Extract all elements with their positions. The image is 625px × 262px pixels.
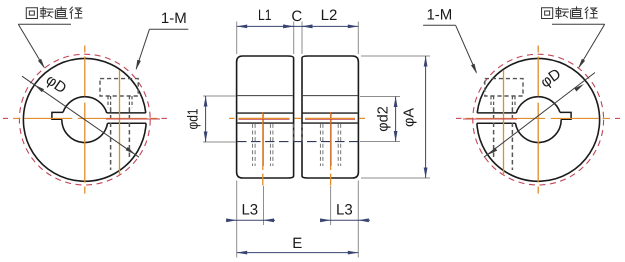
screw axis centerline (503, 70, 505, 175)
extension lines for L1/C/L2 (236, 22, 238, 55)
svg-text:L3: L3 (241, 202, 258, 219)
phi-D dimension line (22, 76, 139, 157)
leader to red circle left (18, 24, 44, 67)
dimension line phi-d1 (205, 96, 207, 142)
svg-text:φd2: φd2 (376, 106, 392, 132)
svg-text:φd1: φd1 (186, 109, 202, 130)
hidden slit gap lines below center (293, 124, 295, 142)
svg-text:C: C (291, 8, 302, 25)
phi-D dimension line (484, 73, 595, 158)
leader to screw hole left (136, 29, 149, 69)
slit upper silhouette line (237, 112, 293, 114)
outer diameter circle (477, 58, 600, 181)
outer diameter circle (23, 58, 146, 181)
hidden bore bottom line (237, 141, 358, 143)
bore top line left half (237, 95, 292, 97)
clamp slit lines (107, 112, 146, 114)
bore relief notch (560, 112, 571, 119)
dimension line L1 (237, 25, 294, 27)
hidden screw thread lines (514, 96, 516, 108)
svg-text:φA: φA (402, 108, 418, 127)
label "kaiten chokkei" (rotation diameter) right (542, 8, 553, 19)
bore top line right half (303, 95, 358, 97)
red overlay segment on centerline (463, 118, 517, 120)
hidden clamp screw hole lines left (252, 124, 254, 166)
rotation-diameter red dashed circle (19, 54, 150, 185)
horizontal centerline (615, 117, 620, 119)
leader to red circle right (579, 24, 605, 67)
clamp slit lines (477, 112, 516, 114)
hidden screw thread lines (107, 96, 109, 108)
bore circle (516, 97, 560, 113)
svg-text:1-M: 1-M (161, 10, 187, 27)
label "kaiten chokkei" (rotation diameter) left (26, 8, 37, 19)
extension lines bottom (236, 181, 238, 258)
vertical centerline (84, 46, 86, 194)
svg-text:L1: L1 (258, 7, 272, 24)
dimension E (237, 252, 359, 254)
slit lower silhouette line (237, 122, 293, 124)
dimension line C (284, 25, 312, 27)
red overlay on front view centerline (239, 118, 356, 120)
extension lines for phi-d1 (203, 95, 236, 97)
bore circle (62, 119, 108, 142)
dimension line phi-d2 (395, 97, 397, 142)
coupling body right half (302, 56, 358, 178)
svg-text:E: E (292, 235, 302, 252)
screw axis centerline left (262, 112, 264, 186)
horizontal centerline (3, 117, 8, 119)
coupling body left half (237, 56, 294, 178)
dimension line phi-A (425, 56, 427, 178)
red overlay segment on centerline (106, 118, 160, 120)
svg-text:L2: L2 (321, 7, 338, 24)
rotation-diameter red dashed circle (473, 54, 604, 185)
vertical centerline (537, 46, 539, 194)
leader to screw hole right (456, 25, 477, 72)
hidden screw counterbore rectangle (100, 79, 138, 96)
dimension line L2 (302, 25, 358, 27)
svg-text:1-M: 1-M (426, 7, 452, 24)
hidden clamp screw hole lines right (319, 124, 321, 166)
extension lines for phi-d2 (360, 96, 400, 98)
extension lines for phi-A (361, 55, 430, 57)
dimension L3 left (226, 219, 275, 221)
bore relief notch (52, 112, 63, 119)
red overlay on screw axes (263, 112, 331, 166)
svg-text:L3: L3 (336, 202, 353, 219)
horizontal centerline of front view (229, 117, 365, 119)
dimension L3 right (320, 219, 370, 221)
hidden screw counterbore rectangle (485, 79, 523, 96)
screw axis centerline right (330, 112, 332, 186)
screw axis centerline (119, 70, 121, 175)
